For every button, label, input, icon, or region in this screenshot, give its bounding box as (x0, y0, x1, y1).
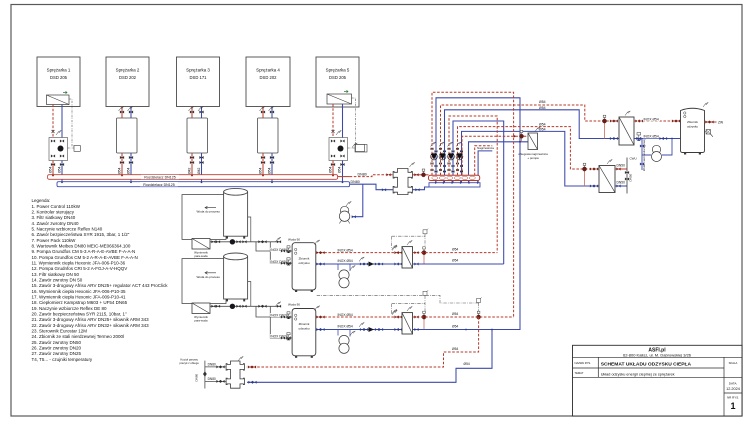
svg-text:DN50: DN50 (629, 173, 633, 181)
svg-text:INOX DN20: INOX DN20 (270, 314, 288, 318)
svg-text:7. Power Pack 110kW: 7. Power Pack 110kW (32, 238, 77, 243)
svg-text:3. Filtr siatkowy DN40: 3. Filtr siatkowy DN40 (32, 215, 76, 220)
svg-text:2. Kontroler sterujący: 2. Kontroler sterujący (32, 210, 75, 215)
svg-text:19. Naczynie wzbiorcze Reflex: 19. Naczynie wzbiorcze Reflex DE 80 (32, 306, 108, 311)
svg-text:odzysku: odzysku (687, 125, 698, 129)
svg-text:INOX Ø54: INOX Ø54 (338, 313, 353, 317)
svg-text:INOX Ø54: INOX Ø54 (644, 118, 659, 122)
svg-text:Ø54: Ø54 (539, 100, 546, 104)
svg-text:13. Filtr siatkowy DN 50: 13. Filtr siatkowy DN 50 (32, 272, 80, 277)
svg-text:62-800 Kalisz, ul. M. Dąbrowsk: 62-800 Kalisz, ul. M. Dąbrowskiej 3/26 (623, 352, 692, 357)
svg-text:DSD 205: DSD 205 (329, 75, 347, 80)
svg-text:DSD 205: DSD 205 (50, 75, 68, 80)
svg-text:odzysku: odzysku (298, 327, 309, 331)
svg-text:25. Zawór zwrotny DN50: 25. Zawór zwrotny DN50 (32, 340, 82, 345)
svg-text:22. Zawór 3-drogowy Afriso ARV: 22. Zawór 3-drogowy Afriso ARV DN32+ sił… (32, 323, 150, 328)
svg-text:Ø54: Ø54 (452, 247, 458, 251)
svg-text:Woda 90: Woda 90 (288, 303, 300, 307)
svg-text:15. Zawór 3-drogowy Afriso ARV: 15. Zawór 3-drogowy Afriso ARV DN25+ reg… (32, 283, 169, 288)
svg-text:8. Wartownik Meibes DN80 MEIC-: 8. Wartownik Meibes DN80 MEIC-ME066364.1… (32, 244, 131, 249)
svg-text:Rozdzielacz DN125: Rozdzielacz DN125 (143, 183, 175, 187)
svg-text:Sprężarka 3: Sprężarka 3 (186, 68, 210, 73)
svg-text:para-woda: para-woda (194, 319, 208, 323)
svg-text:21. Zawór 3-drogowy Afriso ARV: 21. Zawór 3-drogowy Afriso ARV DN25+ sił… (32, 317, 150, 322)
svg-text:DSD 202: DSD 202 (119, 75, 137, 80)
svg-text:DN80: DN80 (208, 363, 216, 367)
svg-text:INOX DN20: INOX DN20 (270, 335, 288, 339)
svg-text:Ø54: Ø54 (338, 166, 342, 173)
svg-text:Woda 90: Woda 90 (288, 237, 300, 241)
svg-text:DN50: DN50 (617, 181, 626, 185)
svg-text:Ø54: Ø54 (464, 362, 470, 366)
svg-text:+ pompa: + pompa (527, 156, 539, 160)
svg-text:26. Zawór zwrotny DN20: 26. Zawór zwrotny DN20 (32, 346, 82, 351)
svg-text:Ø54: Ø54 (539, 128, 546, 132)
svg-text:Ø54: Ø54 (539, 106, 546, 110)
svg-text:Ø54: Ø54 (329, 166, 333, 173)
svg-text:DATA:: DATA: (729, 381, 738, 385)
svg-text:odzysku: odzysku (298, 261, 309, 265)
svg-text:SCHEMAT UKŁADU ODZYSKU CIEPŁA: SCHEMAT UKŁADU ODZYSKU CIEPŁA (601, 362, 692, 368)
svg-text:Ø54: Ø54 (259, 167, 263, 174)
svg-text:DN50: DN50 (617, 164, 626, 168)
svg-text:Nagrzewnica: Nagrzewnica (477, 146, 494, 150)
svg-text:9. Pompa Grundfos CM 5-3 A-R-A: 9. Pompa Grundfos CM 5-3 A-R-A-E-AVBE F-… (32, 249, 136, 254)
svg-text:piecyk z obiegu: piecyk z obiegu (180, 361, 200, 365)
svg-text:INOX DN50: INOX DN50 (270, 260, 288, 264)
svg-text:Sprężarka 2: Sprężarka 2 (116, 68, 140, 73)
svg-text:Ø54: Ø54 (452, 347, 458, 351)
svg-text:11. Wymiennik ciepła Hexonic J: 11. Wymiennik ciepła Hexonic JFA-006-P10… (32, 261, 126, 266)
svg-text:Zbiornik: Zbiornik (687, 120, 698, 124)
svg-text:INOX DN50: INOX DN50 (270, 248, 288, 252)
svg-text:24. Zbiornik ze stali nierdzew: 24. Zbiornik ze stali nierdzewnej Termeo… (32, 334, 124, 339)
svg-text:DN80: DN80 (195, 373, 199, 381)
svg-text:Ø54: Ø54 (452, 324, 458, 328)
svg-text:NAZWA RYS.: NAZWA RYS. (575, 361, 592, 365)
svg-text:DN80: DN80 (358, 173, 367, 177)
svg-text:Ø54: Ø54 (268, 167, 272, 174)
svg-text:Ø54: Ø54 (539, 122, 546, 126)
svg-text:1. Power Control 110kW: 1. Power Control 110kW (32, 204, 81, 209)
svg-text:DN80: DN80 (351, 180, 360, 184)
svg-text:Sprężarka 5: Sprężarka 5 (326, 68, 350, 73)
svg-text:INOX Ø54: INOX Ø54 (338, 259, 353, 263)
svg-text:Ø54: Ø54 (118, 167, 122, 174)
svg-text:12.2024: 12.2024 (726, 387, 740, 391)
svg-text:Sprężarka 1: Sprężarka 1 (47, 68, 71, 73)
svg-text:5. Naczynie wzbiorcze Reflex N: 5. Naczynie wzbiorcze Reflex N140 (32, 227, 103, 232)
svg-text:DSD 171: DSD 171 (190, 75, 208, 80)
svg-text:INOX Ø54: INOX Ø54 (338, 324, 353, 328)
svg-text:DN80: DN80 (208, 377, 216, 381)
svg-text:INOX Ø54: INOX Ø54 (338, 248, 353, 252)
svg-text:1: 1 (730, 401, 735, 411)
svg-text:Ø54: Ø54 (58, 166, 62, 173)
svg-text:Zbiornik: Zbiornik (299, 256, 310, 260)
svg-text:27. Zawór zwrotny DN25: 27. Zawór zwrotny DN25 (32, 351, 82, 356)
svg-text:SKALA: SKALA (729, 361, 738, 365)
svg-text:INOX Ø54: INOX Ø54 (644, 135, 659, 139)
svg-text:Woda do procesu: Woda do procesu (197, 275, 221, 279)
svg-text:TEMAT: TEMAT (575, 371, 584, 375)
svg-text:17. Wymiennik ciepła Hexonic: 17. Wymiennik ciepła Hexonic JFA-009-P10… (32, 295, 127, 300)
svg-text:Woda do procesu: Woda do procesu (197, 210, 221, 214)
svg-text:20. Zawór bezpieczeństwa SYR 2: 20. Zawór bezpieczeństwa SYR 2115, 10bar… (32, 312, 127, 317)
svg-text:Ø42: Ø42 (197, 167, 201, 174)
svg-text:Sprężarka 4: Sprężarka 4 (256, 68, 280, 73)
svg-text:12. Pompa Grudnfos CRI 5-2 A-F: 12. Pompa Grudnfos CRI 5-2 A-FGJ-A-V-HQQ… (32, 266, 128, 271)
svg-text:Ø54: Ø54 (452, 259, 458, 263)
svg-text:4. Zawór zwrotny DN40: 4. Zawór zwrotny DN40 (32, 221, 80, 226)
svg-text:Ø42: Ø42 (188, 167, 192, 174)
svg-text:16. Wymiennik ciepła Hexonic J: 16. Wymiennik ciepła Hexonic JFA-006-P10… (32, 289, 127, 294)
svg-text:14. Zawór zwrotny DN 50: 14. Zawór zwrotny DN 50 (32, 278, 83, 283)
svg-text:para-woda: para-woda (194, 254, 208, 258)
svg-text:CWU: CWU (630, 157, 637, 161)
svg-text:Legenda:: Legenda: (32, 198, 51, 203)
svg-text:6. Zawór bezpieczeństwa SYR 19: 6. Zawór bezpieczeństwa SYR 1915, 3bar, … (32, 232, 130, 237)
svg-text:ZW: ZW (718, 120, 724, 124)
svg-text:Rozdzielacz DN125: Rozdzielacz DN125 (144, 176, 176, 180)
svg-text:NR RYS.: NR RYS. (727, 396, 739, 400)
svg-text:T4, T5... - czujniki temperatu: T4, T5... - czujniki temperatury (32, 357, 93, 362)
svg-text:DSD 202: DSD 202 (260, 75, 278, 80)
svg-text:18. Ciepłomierz Kampstrup M603: 18. Ciepłomierz Kampstrup M603 + UF54 DN… (32, 300, 128, 305)
svg-text:Woda z sieci wodociągowej: Woda z sieci wodociągowej (642, 139, 646, 171)
svg-text:Układ odzysku energii cieplnej: Układ odzysku energii cieplnej ze spręża… (601, 372, 675, 376)
svg-text:Ø54: Ø54 (49, 166, 53, 173)
svg-text:Ø54: Ø54 (452, 312, 458, 316)
svg-text:Ø54: Ø54 (127, 167, 131, 174)
svg-text:23. Sterownik Eurostar 12M: 23. Sterownik Eurostar 12M (32, 329, 88, 334)
svg-text:Zbiornik: Zbiornik (299, 322, 310, 326)
svg-text:10. Pompa Grundfos CM 5-2 A-R-: 10. Pompa Grundfos CM 5-2 A-R-A-E-AVBE F… (32, 255, 138, 260)
